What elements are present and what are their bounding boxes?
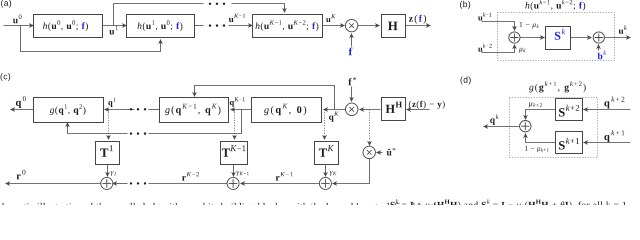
panel label (d) xyxy=(461,77,471,85)
block H xyxy=(382,15,406,38)
dotted tap q^{K-1} down to T^{K-1} xyxy=(234,110,236,140)
block H^H xyxy=(382,98,406,121)
block T^1 xyxy=(96,142,120,165)
wire multiplier down and left into adder xyxy=(333,159,370,184)
block S^{k+1} xyxy=(556,132,583,154)
caption text (clipped at bottom edge) xyxy=(2,203,443,212)
title h(u^{k-1},u^{k-2};f) xyxy=(525,0,575,10)
wire u^{k-1} into adder top xyxy=(482,22,515,31)
ellipsis on second feed line xyxy=(130,132,132,134)
output wire u^k xyxy=(605,37,631,39)
label f (blue) xyxy=(349,48,353,56)
label gamma_{K-1} xyxy=(236,171,248,176)
block h(u^0,u^0;f) xyxy=(34,15,103,38)
top feed line right segment into h3 top xyxy=(232,4,285,13)
wire S^{k+1} to adder bottom xyxy=(526,134,556,143)
label q^K xyxy=(329,112,339,122)
multiplier (x) applying u-hat* xyxy=(363,146,375,158)
label z(f) xyxy=(409,15,417,24)
output wire z(f) xyxy=(406,25,431,27)
wire T^{K-1} down to adder xyxy=(233,165,235,177)
wire r^0 output (leftward) xyxy=(6,183,101,185)
label q^{K-1} xyxy=(230,97,245,107)
label u^{k-2} xyxy=(478,44,492,52)
block g(q^1,q^2) xyxy=(34,98,104,123)
label q^0 xyxy=(16,96,26,108)
adder (+) of panel (d) xyxy=(520,121,531,132)
label 1-mu_{k+1} xyxy=(525,146,549,152)
wire T^1 down to adder xyxy=(107,165,109,177)
adder (+) r-line under T^{K-1} xyxy=(227,177,239,189)
multiplier (x) applying f* xyxy=(346,103,358,115)
wire r^{K-1} between adders (leftward) xyxy=(241,183,320,185)
wire: q^{K-1} tap down to second feed line xyxy=(149,110,242,134)
block g(q^K,0) xyxy=(252,98,322,123)
wire multiplier to H xyxy=(358,25,380,27)
label b^k (blue) xyxy=(598,50,607,59)
wire from H^H into multiplier xyxy=(360,109,381,111)
label q^{k+1} xyxy=(604,130,624,142)
adder (+) with bias b^k xyxy=(593,32,604,43)
input wire q^{k+1} into S^{k+1} xyxy=(584,142,631,144)
output wire q^k (leftward) xyxy=(484,126,520,128)
ellipsis on r-line xyxy=(130,182,132,184)
label q^1 xyxy=(108,98,115,108)
wire u^{k-2} into adder bottom xyxy=(482,45,515,53)
block S^{k+2} xyxy=(556,99,583,121)
title g(g^{k+1},g^{k+2}) xyxy=(529,81,586,92)
label f* xyxy=(348,77,356,85)
block h(u^1,u^0;f) xyxy=(127,15,195,38)
multiplier (x) applying f xyxy=(345,19,357,31)
label q^{k+2} xyxy=(604,97,624,109)
ellipsis on top feed line xyxy=(209,3,211,5)
dotted tap q^K down to T^K xyxy=(324,110,326,140)
label r^{K-1} xyxy=(276,172,293,181)
label u^{K-1} xyxy=(229,14,245,22)
label u^k xyxy=(619,25,627,34)
wire h2 right to ellipsis xyxy=(195,25,204,27)
input wire q^{k+2} into S^{k+2} xyxy=(584,109,631,111)
wire T^K down to adder xyxy=(325,165,327,177)
wire: u^1 tap up to top feed line (left segment) xyxy=(114,4,204,26)
block S^k xyxy=(546,27,571,50)
output wire q^0 (leftward) xyxy=(11,109,34,111)
label u-hat* xyxy=(387,148,396,156)
block h(u^{K-1},u^{K-2};f) xyxy=(253,15,323,38)
ellipsis on main wire (a) xyxy=(209,24,211,26)
block g(q^{K-1},q^K) xyxy=(160,98,229,123)
adder (+) r-line under T^1 xyxy=(101,177,113,189)
dashed box of panel (b) xyxy=(498,13,615,61)
wire: input u^0 into block h1 xyxy=(4,25,34,27)
wire segment q^1 before ellipsis xyxy=(122,109,135,111)
wire segment between ellipsis and g2 xyxy=(149,109,160,111)
dotted tap q^1 down to T^1 xyxy=(108,110,110,140)
panel label (b) xyxy=(460,1,470,9)
label u^0 xyxy=(13,15,22,24)
dashed box of panel (d) xyxy=(510,98,598,158)
panel label (c) xyxy=(1,73,11,81)
label u^{k-1} xyxy=(478,12,492,20)
input wire (z(f)-y) into H^H xyxy=(407,109,430,111)
adder (+) of panel (b) xyxy=(509,32,520,43)
wire q^K from multiplier into g3 xyxy=(324,109,346,111)
wire q^{K-1} from g3 into g2 xyxy=(231,109,252,111)
r-line segment right of ellipsis xyxy=(149,183,228,185)
label gamma_1 xyxy=(111,171,116,176)
label (z(f)-y) xyxy=(409,101,445,109)
label r^{K-2} xyxy=(182,172,199,181)
wire: f into multiplier xyxy=(351,34,353,47)
wire q^2 feed: second line into g1 bottom xyxy=(68,124,128,134)
dotted tap down to multiplier u-hat* xyxy=(369,110,371,146)
ellipsis on main wire (c) xyxy=(130,108,132,110)
wire S^{k+2} to adder top xyxy=(526,110,556,120)
label 1-mu_k xyxy=(520,22,539,29)
label u^1 xyxy=(109,26,118,35)
wire into adder right side xyxy=(113,183,128,185)
wire q^1 into block g1 (leftward) xyxy=(105,109,122,111)
adder (+) r-line under T^K xyxy=(319,177,331,189)
label u^K xyxy=(326,14,335,22)
label mu_k xyxy=(519,48,526,53)
wire u^K to multiplier xyxy=(323,25,345,27)
wire S^k to adder 2 xyxy=(571,37,592,39)
wire f* into multiplier xyxy=(351,87,353,102)
block T^K xyxy=(315,142,339,165)
wire: u^0 feed to block h2 bottom xyxy=(21,26,161,52)
label gamma_K xyxy=(330,171,337,176)
wire b^k into adder xyxy=(598,45,600,51)
block T^{K-1} xyxy=(221,142,248,165)
wire u^{K-1} into h3 xyxy=(229,25,253,27)
panel label (a) xyxy=(1,0,11,8)
wire: q^K top feed into g2 top xyxy=(195,86,335,110)
label q^k xyxy=(490,114,499,125)
wire u^1: h1 to h2 xyxy=(103,25,127,27)
wire adder to S^k xyxy=(521,37,545,39)
label r^0 xyxy=(17,170,26,180)
label mu_{k+2} xyxy=(529,102,542,107)
wire u-hat* into multiplier xyxy=(377,152,383,154)
